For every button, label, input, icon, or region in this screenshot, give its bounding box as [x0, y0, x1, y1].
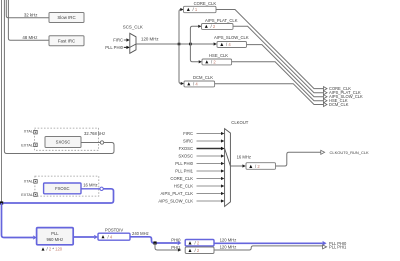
- svg-text:FIRC: FIRC: [183, 131, 193, 136]
- svg-text:16 MHz: 16 MHz: [83, 183, 97, 188]
- node terminal arrow DCM_CLK: [324, 103, 328, 107]
- wire FIRC 48 MHz: [8, 0, 49, 40]
- wire SCS mux internal select diagonal: [130, 44, 136, 47]
- svg-text:SXOSC: SXOSC: [56, 140, 71, 145]
- svg-text:SCS_CLK: SCS_CLK: [123, 25, 143, 30]
- svg-text:PLL PHI0: PLL PHI0: [105, 45, 123, 50]
- svg-text:PHI1: PHI1: [171, 245, 181, 250]
- svg-text:SXOSC: SXOSC: [178, 154, 193, 159]
- wire CLKOUT mux internal select diagonal: [225, 149, 231, 167]
- svg-text:SIRC: SIRC: [183, 139, 193, 144]
- svg-text:DCM_CLK: DCM_CLK: [329, 102, 349, 107]
- divider AIPS_PLAT_CLK /2: [202, 24, 234, 30]
- svg-text:Slow IRC: Slow IRC: [57, 15, 75, 20]
- node terminal arrow AIPS_PLAT_CLK: [324, 91, 328, 95]
- divider AIPS_SLOW_CLK /4: [217, 42, 247, 48]
- wire PLL PHI1 output to terminal (gray): [214, 246, 323, 250]
- svg-text:POSTDIV: POSTDIV: [105, 228, 124, 233]
- node FXOSC output circle: [100, 187, 103, 190]
- svg-text:HSE_CLK: HSE_CLK: [174, 184, 193, 189]
- oscillator SXOSC: [45, 137, 81, 148]
- svg-text:PLL: PLL: [51, 231, 59, 236]
- divider CLKOUT /2: [246, 163, 276, 170]
- svg-text:/ 2: / 2: [195, 241, 200, 246]
- svg-text:CORE_CLK: CORE_CLK: [194, 1, 217, 6]
- divider PHI1 /2 (gray): [185, 247, 214, 254]
- svg-text:DCM_CLK: DCM_CLK: [193, 75, 213, 80]
- wire SXOSC output to circle: [81, 142, 101, 144]
- node junction PHI split: [153, 241, 156, 244]
- node arrow into AIPS_SLOW_CLK divider: [214, 42, 217, 45]
- svg-text:Fast IRC: Fast IRC: [58, 38, 75, 43]
- node terminal arrow PLL PHI1: [323, 245, 327, 249]
- svg-text:120 MHz: 120 MHz: [141, 37, 159, 42]
- wire branch to AIPS_PLAT_CLK divider: [190, 26, 198, 44]
- svg-text:/ 1: / 1: [193, 7, 198, 12]
- svg-text:960 MHz: 960 MHz: [47, 237, 64, 242]
- svg-text:AIPS_SLOW_CLK: AIPS_SLOW_CLK: [214, 35, 249, 40]
- oscillator Fast IRC: [49, 36, 84, 46]
- svg-text:120 MHz: 120 MHz: [220, 237, 237, 242]
- svg-text:EXTAL: EXTAL: [21, 193, 33, 197]
- svg-text:CORE_CLK: CORE_CLK: [170, 176, 193, 181]
- wire SIRC 32 kHz: [6, 0, 49, 18]
- mux SCS_CLK body: [130, 33, 136, 53]
- wire FXOSC blue down to PLL: [2, 203, 34, 238]
- wire SXOSC net vertical bus + bottom return: [4, 0, 114, 154]
- wire branch to PHI1 (gray): [155, 243, 178, 250]
- wire branch to DCM_CLK divider: [179, 44, 181, 84]
- svg-text:/ 2: / 2: [211, 24, 216, 29]
- svg-text:PLL PHI1: PLL PHI1: [175, 169, 193, 174]
- node junction FXOSC bus: [0, 201, 3, 204]
- svg-text:/ 2: / 2: [195, 248, 200, 253]
- pll PLL box: [37, 228, 74, 245]
- svg-text:AIPS_SLOW_CLK: AIPS_SLOW_CLK: [158, 199, 193, 204]
- wire CORE_CLK output to terminal: [216, 10, 323, 89]
- divider HSE_CLK /2: [202, 59, 232, 65]
- oscillator Slow IRC: [49, 13, 84, 23]
- wire HSE_CLK output to terminal: [232, 62, 324, 101]
- svg-text:16 MHz: 16 MHz: [237, 154, 251, 159]
- wire AIPS_PLAT_CLK output to terminal: [233, 26, 323, 92]
- divider CORE_CLK /1: [184, 6, 217, 12]
- node terminal arrow HSE_CLK: [324, 99, 328, 103]
- divider DCM_CLK /4: [184, 81, 215, 87]
- node terminal arrow CLKOUT0_RUN_CLK: [321, 150, 325, 154]
- svg-text:XTAL: XTAL: [24, 179, 33, 183]
- wire PLL PHI0 output to terminal (blue): [214, 242, 323, 244]
- oscillator FXOSC (selected, blue): [44, 183, 81, 194]
- svg-text:PLL PHI1: PLL PHI1: [329, 244, 347, 249]
- wire AIPS_SLOW_CLK output to terminal: [247, 45, 324, 97]
- svg-text:120 MHz: 120 MHz: [220, 245, 237, 250]
- wire DCM_CLK output to terminal: [215, 84, 324, 105]
- wire FXOSC output to circle (blue): [81, 188, 100, 190]
- node terminal arrow PLL PHI0: [323, 241, 327, 246]
- mux CLKOUT body: [225, 129, 231, 207]
- svg-text:/ 2: / 2: [211, 59, 216, 64]
- svg-text:HSE_CLK: HSE_CLK: [209, 53, 228, 58]
- svg-text:CLKOUT0_RUN_CLK: CLKOUT0_RUN_CLK: [330, 150, 370, 155]
- wire FXOSC blue route right-down-left to bus: [2, 189, 114, 203]
- svg-text:/ 4: / 4: [108, 234, 113, 239]
- wire SCS_CLK 120 MHz output: [136, 43, 214, 45]
- svg-text:PHI0: PHI0: [171, 237, 181, 242]
- svg-text:32.768 kHz: 32.768 kHz: [84, 131, 105, 136]
- svg-text:FXOSC: FXOSC: [179, 146, 193, 151]
- svg-text:EXTAL: EXTAL: [21, 143, 33, 147]
- svg-text:PLL PHI0: PLL PHI0: [175, 161, 193, 166]
- wire branch to CORE_CLK divider: [179, 10, 181, 45]
- label PLL settings / 2 * 120: [42, 247, 45, 250]
- node SXOSC output circle: [100, 141, 103, 144]
- wire CLKOUT mux output to divider: [230, 165, 242, 167]
- svg-text:FXOSC: FXOSC: [55, 186, 69, 191]
- svg-text:FIRC: FIRC: [113, 38, 123, 43]
- wire FXOSC net vertical bus: [1, 0, 3, 202]
- wire PLL output to POSTDIV: [73, 236, 94, 238]
- wire POSTDIV output to PHI junction: [130, 237, 178, 243]
- svg-text:/ 4: / 4: [193, 81, 198, 86]
- svg-text:/ 2: / 2: [255, 164, 260, 169]
- svg-text:AIPS_PLAT_CLK: AIPS_PLAT_CLK: [205, 18, 238, 23]
- svg-text:XTAL: XTAL: [24, 130, 33, 134]
- svg-text:/ 4: / 4: [226, 42, 231, 47]
- node terminal arrow AIPS_SLOW_CLK: [324, 95, 328, 99]
- divider PHI0 /2 (blue): [185, 240, 214, 247]
- svg-text:/ 2 * 120: / 2 * 120: [47, 247, 63, 252]
- node junction on 120MHz line feeding CORE/DCM: [178, 43, 181, 46]
- svg-text:32 kHz: 32 kHz: [24, 13, 38, 18]
- svg-text:AIPS_PLAT_CLK: AIPS_PLAT_CLK: [160, 191, 193, 196]
- svg-text:48 MHz: 48 MHz: [22, 35, 37, 40]
- divider POSTDIV /4: [98, 233, 130, 240]
- wire CLKOUT /2 output to terminal: [276, 152, 321, 166]
- oscillator block FXOSC dashed container: [35, 176, 99, 196]
- svg-text:240 MHz: 240 MHz: [132, 231, 149, 236]
- wire branch to HSE_CLK divider: [190, 44, 198, 62]
- node terminal arrow CORE_CLK: [324, 87, 328, 91]
- node junction on 120MHz line feeding PLAT/HSE: [189, 43, 192, 46]
- oscillator block SXOSC dashed container: [34, 128, 98, 150]
- svg-text:CLKOUT: CLKOUT: [231, 120, 248, 125]
